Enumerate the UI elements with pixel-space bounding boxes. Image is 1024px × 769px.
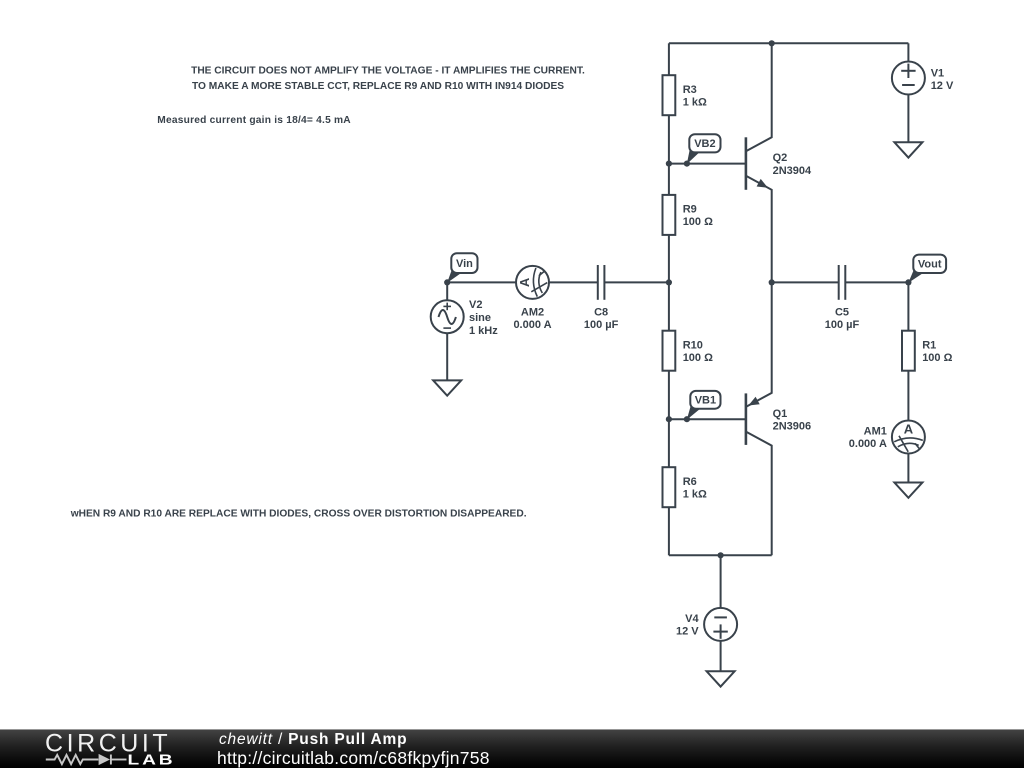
capacitor C5 100uF: [838, 265, 840, 300]
svg-text:A: A: [904, 422, 914, 437]
wire AM2 to C8: [549, 281, 598, 283]
wire mid to R10: [668, 282, 670, 330]
svg-text:0.000 A: 0.000 A: [849, 438, 887, 450]
ground below V2: [433, 380, 461, 395]
transistor Q1 collector diagonal: [746, 432, 772, 556]
transistor Q2 base bar: [745, 137, 748, 190]
svg-text:1 kΩ: 1 kΩ: [683, 96, 707, 108]
svg-text:R6: R6: [683, 476, 697, 488]
node junction VB1 rail: [666, 416, 672, 422]
wire Vin to AM2: [447, 281, 516, 283]
wire bottom rail: [669, 554, 772, 556]
svg-text:Vin: Vin: [456, 258, 473, 270]
svg-text:Q1: Q1: [773, 408, 788, 420]
svg-text:LAB: LAB: [128, 751, 176, 767]
node Vout dot: [905, 279, 911, 285]
wire VB2 to R9: [668, 164, 670, 195]
capacitor C8 100uF: [597, 265, 599, 300]
svg-text:R10: R10: [683, 339, 703, 351]
svg-text:100 Ω: 100 Ω: [683, 352, 713, 364]
svg-text:VB2: VB2: [694, 138, 715, 150]
wire Vout to R1: [907, 282, 909, 330]
ammeter AM1: [892, 421, 925, 454]
wire C8 to divider: [604, 281, 669, 283]
svg-text:R9: R9: [683, 204, 697, 216]
svg-text:VB1: VB1: [695, 395, 716, 407]
wire R1 to AM1: [907, 371, 909, 421]
node junction divider mid: [666, 279, 672, 285]
svg-text:100 µF: 100 µF: [584, 319, 619, 331]
svg-text:AM1: AM1: [864, 426, 887, 438]
node VB2 pin: [684, 161, 690, 167]
svg-text:100 µF: 100 µF: [825, 319, 860, 331]
wire V1 top stub: [907, 43, 909, 61]
node flag VB1: [687, 406, 701, 420]
transistor Q2 emitter arrow: [757, 179, 768, 188]
wire Vin down to V2: [446, 282, 448, 300]
resistor R9 100 Ohm: [663, 195, 676, 235]
svg-text:C5: C5: [835, 307, 849, 319]
svg-text:2N3904: 2N3904: [773, 165, 812, 177]
svg-text:0.000 A: 0.000 A: [513, 319, 551, 331]
resistor R10 100 Ohm: [663, 331, 676, 371]
transistor Q2 emitter diagonal: [746, 176, 772, 283]
wire R6 to bottom rail: [668, 507, 670, 555]
svg-text:2N3906: 2N3906: [773, 421, 812, 433]
resistor R1 100 Ohm: [902, 331, 915, 371]
resistor R3 1 kOhm: [663, 75, 676, 115]
wire V4 to ground: [720, 641, 722, 671]
svg-text:V2: V2: [469, 299, 482, 311]
node junction top rail / Q2 collector: [769, 40, 775, 46]
node flag Vin: [447, 270, 462, 283]
voltage source V4: [704, 608, 737, 641]
ground below AM1: [894, 483, 922, 498]
svg-text:V4: V4: [685, 613, 699, 625]
wire top rail to R3: [668, 43, 670, 75]
svg-text:TO MAKE A MORE STABLE CCT, REP: TO MAKE A MORE STABLE CCT, REPLACE R9 AN…: [192, 81, 564, 92]
svg-text:100 Ω: 100 Ω: [683, 216, 713, 228]
node junction VB2 rail: [666, 161, 672, 167]
node junction bottom rail: [718, 552, 724, 558]
svg-text:12 V: 12 V: [676, 625, 699, 637]
voltage source V1: [892, 62, 925, 95]
svg-text:Q2: Q2: [773, 152, 788, 164]
transistor Q1 base bar: [745, 393, 748, 445]
wire V1 to ground: [907, 95, 909, 143]
ground below V1: [894, 142, 922, 157]
wire R10 to VB1: [668, 371, 670, 420]
node flag VB2: [687, 149, 700, 164]
wire AM1 to ground: [907, 454, 909, 483]
footer bar: [0, 729, 1024, 768]
svg-text:Vout: Vout: [918, 259, 942, 271]
wire R9 to mid node: [668, 235, 670, 283]
wire top rail: [669, 42, 909, 44]
transistor Q2 collector diagonal: [746, 43, 772, 151]
svg-text:wHEN R9 AND R10 ARE REPLACE WI: wHEN R9 AND R10 ARE REPLACE WITH DIODES,…: [70, 509, 527, 520]
wire base Q2: [669, 163, 746, 165]
svg-text:100 Ω: 100 Ω: [922, 352, 952, 364]
resistor R6 1 kOhm: [663, 467, 676, 507]
ammeter AM2: [516, 266, 549, 299]
wire V4 top stub: [720, 555, 722, 608]
ground below V4: [707, 671, 735, 686]
svg-text:12 V: 12 V: [931, 80, 954, 92]
svg-text:A: A: [517, 277, 532, 287]
transistor Q1 emitter arrow (PNP): [748, 397, 759, 406]
node flag Vout: [908, 270, 923, 283]
wire base Q1: [669, 418, 746, 420]
svg-text:THE CIRCUIT DOES NOT AMPLIFY T: THE CIRCUIT DOES NOT AMPLIFY THE VOLTAGE…: [191, 66, 585, 77]
svg-text:Measured current gain is 18/4=: Measured current gain is 18/4= 4.5 mA: [157, 115, 351, 126]
svg-text:R3: R3: [683, 84, 697, 96]
wire R3 to VB2 node: [668, 115, 670, 163]
svg-text:R1: R1: [922, 339, 936, 351]
wire out to C5: [772, 281, 839, 283]
transistor Q1 emitter diagonal: [746, 282, 772, 407]
svg-text:AM2: AM2: [521, 307, 544, 319]
svg-text:C8: C8: [594, 307, 608, 319]
svg-text:1 kHz: 1 kHz: [469, 325, 498, 337]
voltage source V2 sine: [431, 300, 464, 333]
node VB1 pin: [684, 416, 690, 422]
node junction emitters: [769, 279, 775, 285]
wire VB1 to R6: [668, 419, 670, 467]
svg-text:1 kΩ: 1 kΩ: [683, 488, 707, 500]
svg-text:V1: V1: [931, 68, 944, 80]
node Vin dot: [444, 279, 450, 285]
wire V2 to ground: [446, 333, 448, 380]
svg-text:sine: sine: [469, 312, 491, 324]
CircuitLab logo: [0, 729, 180, 768]
wire C5 to Vout: [845, 281, 908, 283]
